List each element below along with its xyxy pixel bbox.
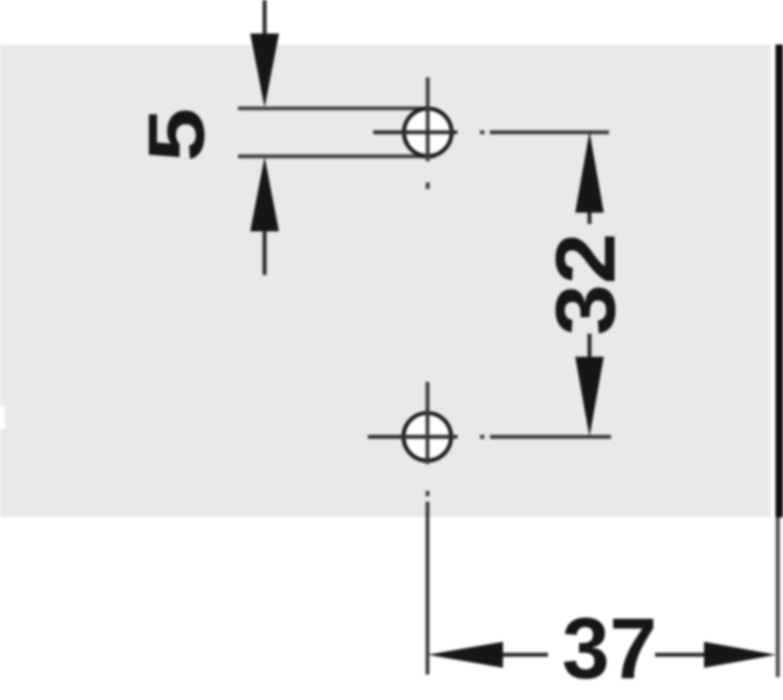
hole H1 centerline vertical	[426, 77, 430, 161]
dim-32 upper arrow head	[575, 132, 604, 213]
notch artifact left edge	[0, 406, 5, 429]
svg-text:32: 32	[538, 233, 632, 336]
svg-text:37: 37	[562, 601, 657, 697]
hole H2 centerline vertical	[426, 382, 430, 464]
hole H2 extension line right	[490, 435, 611, 439]
dim-32 lower tail	[588, 334, 592, 358]
dim-37 left arrow head	[428, 642, 503, 668]
dim-5 tangent line bottom	[238, 154, 435, 158]
dim-5 upper arrow head	[250, 34, 279, 108]
dim-5 lower arrow tail	[263, 231, 267, 275]
hole H2 centerline horizontal dot	[480, 435, 485, 439]
svg-text:5: 5	[131, 108, 221, 162]
dim-5 lower arrow head	[250, 157, 279, 231]
hole H2 extension line down	[426, 502, 430, 675]
hole H1 extension line right	[490, 130, 609, 134]
hole H1 centerline horizontal	[373, 130, 457, 134]
hole H2 (bottom) circle	[404, 413, 452, 461]
dim-37 left line	[503, 653, 548, 657]
hole H2 centerline horizontal	[368, 435, 458, 439]
dim-32 upper tail	[588, 212, 592, 224]
dim-5 tangent line top	[238, 107, 430, 111]
hole H1 centerline horizontal dot	[480, 130, 485, 134]
hole H1 (top) circle	[404, 109, 452, 157]
dim-37 right line	[655, 653, 704, 657]
hole H2 centerline vertical dot	[426, 491, 430, 496]
dim-5 upper arrow tail	[263, 0, 267, 34]
panel front edge (thick black band)	[776, 45, 783, 518]
hole H1 centerline vertical dot	[426, 182, 430, 189]
dim-37 right arrow head	[704, 642, 776, 668]
edge extension line (below panel, for 37 dim)	[776, 517, 780, 677]
panel (board face)	[0, 45, 771, 517]
dim-32 lower arrow head	[575, 357, 604, 437]
